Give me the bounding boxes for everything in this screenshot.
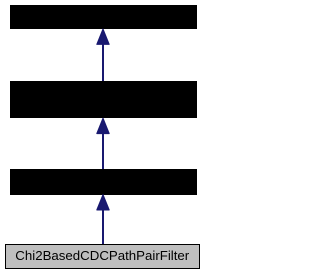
node: Chi2BasedCDCPathPairFilter (current class, gray) xyxy=(5,244,200,269)
arrow shaft 1 xyxy=(102,44,104,81)
inheritance arrow 3 (to third box) xyxy=(97,195,109,245)
inheritance arrow 1 (to top box) xyxy=(97,29,109,81)
arrowhead 2 xyxy=(97,118,109,133)
node: third base class box (ghost black) xyxy=(10,169,197,195)
node: second base class box (ghost black) xyxy=(10,81,197,118)
arrowhead 3 xyxy=(97,195,109,210)
inheritance arrow 2 (to middle box) xyxy=(97,118,109,169)
arrow shaft 3 xyxy=(102,209,104,245)
arrow shaft 2 xyxy=(102,133,104,169)
node: base class box (top, ghost black) xyxy=(10,5,197,29)
arrowhead 1 xyxy=(97,29,109,44)
